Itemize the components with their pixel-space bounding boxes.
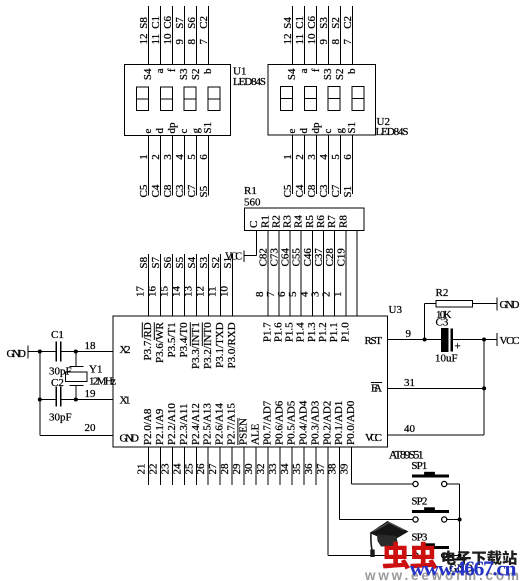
pin number 31 xyxy=(404,377,415,389)
wire net S6 to U3 xyxy=(172,254,174,316)
wire U1 top pin 7 xyxy=(208,6,210,65)
U3 pin number 24 xyxy=(171,463,183,475)
R1 pin name R5 xyxy=(304,215,316,228)
wire net S2 to U3 xyxy=(220,254,222,316)
U3 pin name P0.3/AD3 xyxy=(309,400,321,445)
U2 pin name f xyxy=(310,68,322,72)
net C1 above U1 xyxy=(150,16,162,29)
net C6 above U2 xyxy=(306,15,318,28)
wire VCC rail down xyxy=(483,340,485,435)
U2 pin number 2 xyxy=(294,154,306,160)
svg-text:d: d xyxy=(298,128,310,134)
svg-text:S6: S6 xyxy=(186,17,198,29)
svg-text:10uF: 10uF xyxy=(435,353,458,365)
svg-text:1: 1 xyxy=(332,292,344,298)
net S1 below U2 xyxy=(342,186,354,198)
U3 pin name P3.4/T0 xyxy=(178,322,190,358)
U3 pin name P1.7 xyxy=(261,322,273,342)
wire SP3 to GND rail xyxy=(447,555,459,557)
U3 pin number 30 xyxy=(243,463,255,475)
node VCC junction xyxy=(482,338,486,342)
U3 pin number 29 xyxy=(231,463,243,475)
svg-text:9: 9 xyxy=(318,39,330,45)
svg-text:P3.4/T0: P3.4/T0 xyxy=(178,322,190,358)
net S4 above U2 xyxy=(282,17,294,29)
U3 pin name X2 xyxy=(120,344,131,356)
svg-text:16: 16 xyxy=(147,286,159,298)
U3 pin name P1.6 xyxy=(272,322,284,342)
U3 pin number 17 xyxy=(135,286,147,298)
svg-text:e: e xyxy=(286,129,298,134)
U2 digit segment 3 xyxy=(328,87,340,111)
wire RST pin 9 xyxy=(388,339,442,341)
MCU U3 box AT89S51 xyxy=(113,316,388,447)
svg-text:f: f xyxy=(166,68,178,72)
svg-text:6: 6 xyxy=(198,154,210,160)
svg-text:P0.3/AD3: P0.3/AD3 xyxy=(309,400,321,445)
svg-text:P0.5/AD5: P0.5/AD5 xyxy=(285,400,297,445)
svg-text:P2.6/A14: P2.6/A14 xyxy=(214,403,226,445)
svg-text:g: g xyxy=(190,128,202,134)
svg-text:P3.6/WR: P3.6/WR xyxy=(154,322,166,363)
U3 pin name GND xyxy=(120,433,140,445)
U2 pin number 4 xyxy=(318,154,330,160)
svg-text:9: 9 xyxy=(406,328,412,340)
svg-text:C5: C5 xyxy=(138,184,150,197)
svg-text:P1.0: P1.0 xyxy=(339,322,351,342)
net S5 below U1 xyxy=(198,185,210,197)
U2 pin number 5 xyxy=(330,154,342,160)
svg-text:R2: R2 xyxy=(270,215,282,228)
svg-text:S3: S3 xyxy=(318,17,330,29)
U1 pin number 10 xyxy=(162,33,174,45)
U3 pin number 28 xyxy=(219,463,231,475)
node RST junction xyxy=(423,338,427,342)
svg-text:C73: C73 xyxy=(268,248,280,267)
wire U2 top pin 11 xyxy=(304,6,306,65)
svg-text:C7: C7 xyxy=(186,184,198,197)
pin number 20 xyxy=(85,422,97,434)
node SP3 junction xyxy=(458,554,462,558)
svg-text:21: 21 xyxy=(136,464,148,475)
node EA junction xyxy=(482,386,486,390)
wire U1 bottom pin 6 xyxy=(208,136,210,196)
svg-text:P0.6/AD6: P0.6/AD6 xyxy=(273,400,285,445)
svg-text:c: c xyxy=(178,129,190,134)
svg-text:P0.0/AD0: P0.0/AD0 xyxy=(345,400,357,445)
svg-text:7: 7 xyxy=(265,291,277,297)
svg-text:34: 34 xyxy=(279,463,291,475)
svg-text:C6: C6 xyxy=(306,15,318,28)
svg-text:11: 11 xyxy=(150,34,162,45)
svg-text:f: f xyxy=(310,68,322,72)
label R2 xyxy=(436,287,449,299)
svg-text:10: 10 xyxy=(162,33,174,45)
U3 pin number 21 xyxy=(136,464,148,475)
wire U2 bottom pin 4 xyxy=(328,135,330,194)
node Y1 top junction xyxy=(74,350,78,354)
U3 pin name P1.4 xyxy=(295,322,307,342)
svg-text:7: 7 xyxy=(198,39,210,45)
svg-text:P2.2/A10: P2.2/A10 xyxy=(166,403,178,445)
U2 digit segment 4 xyxy=(352,87,364,111)
U2 pin name e xyxy=(286,129,298,134)
wire U1 bottom pin 1 xyxy=(148,136,150,196)
svg-text:P0.1/AD1: P0.1/AD1 xyxy=(333,401,345,445)
svg-text:S4: S4 xyxy=(186,256,198,268)
U3 pin name X1 xyxy=(120,395,131,407)
U1 pin name S2 xyxy=(190,69,202,81)
svg-text:S7: S7 xyxy=(174,17,186,29)
wire U2 top pin 8 xyxy=(340,6,342,65)
U3 pin name P3.6/WR xyxy=(154,322,166,363)
svg-text:11: 11 xyxy=(207,286,219,297)
svg-text:29: 29 xyxy=(231,463,243,475)
U3 pin name P3.0/RXD xyxy=(226,322,238,368)
svg-text:C3: C3 xyxy=(436,317,449,329)
svg-text:RST: RST xyxy=(365,335,383,347)
U3 pin name P0.1/AD1 xyxy=(333,401,345,445)
U3 pin name P1.3 xyxy=(306,322,318,342)
U3 pin name P2.7/A15 xyxy=(226,403,238,445)
svg-text:10: 10 xyxy=(219,286,231,298)
U2 pin number 9 xyxy=(318,39,330,45)
svg-text:SP3: SP3 xyxy=(411,531,428,543)
svg-text:VCC: VCC xyxy=(365,432,382,444)
U1 pin number 3 xyxy=(162,154,174,160)
svg-text:P0.2/AD2: P0.2/AD2 xyxy=(321,401,333,445)
svg-text:35: 35 xyxy=(291,463,303,475)
wire R1 pin to U3 P1 xyxy=(345,231,347,317)
net S4 xyxy=(186,256,198,268)
wire U1 top pin 8 xyxy=(196,6,198,65)
node X1 junction xyxy=(38,398,42,402)
U2 pin name a xyxy=(298,68,310,73)
U2 digit segment 1 xyxy=(281,87,293,111)
svg-text:S2: S2 xyxy=(210,257,222,269)
svg-text:d: d xyxy=(154,128,166,134)
svg-text:PSEN: PSEN xyxy=(238,418,250,445)
net C55 xyxy=(291,248,303,267)
U1 pin number 12 xyxy=(138,34,150,45)
wire SP2 to GND rail xyxy=(447,519,459,521)
wire net S1 to U3 xyxy=(232,254,234,316)
wire GND rail to pin 20 xyxy=(40,435,113,437)
wire C1 to X2 xyxy=(61,351,113,353)
svg-text:C4: C4 xyxy=(294,184,306,197)
wire U1 top pin 11 xyxy=(160,6,162,65)
net C7 below U1 xyxy=(186,184,198,197)
svg-text:22: 22 xyxy=(147,464,159,475)
svg-text:g: g xyxy=(334,128,346,134)
svg-text:30pF: 30pF xyxy=(49,412,72,424)
svg-text:2: 2 xyxy=(150,154,162,160)
net C8 below U1 xyxy=(162,184,174,197)
svg-text:S1: S1 xyxy=(222,257,234,269)
svg-text:P3.2/INT0: P3.2/INT0 xyxy=(202,322,214,369)
U2 pin number 12 xyxy=(282,34,294,45)
net S7 above U1 xyxy=(174,17,186,29)
net C7 below U2 xyxy=(330,184,342,197)
wire U1 bottom pin 2 xyxy=(160,136,162,196)
svg-text:C1: C1 xyxy=(294,16,306,29)
wire net S3 to U3 xyxy=(208,254,210,316)
U3 pin number 5 xyxy=(287,291,299,297)
U3 pin name P0.6/AD6 xyxy=(273,400,285,445)
svg-text:S1: S1 xyxy=(346,122,358,134)
svg-text:C19: C19 xyxy=(335,248,347,267)
wire U2 top pin 10 xyxy=(316,6,318,65)
svg-text:S3: S3 xyxy=(322,68,334,80)
svg-text:C5: C5 xyxy=(282,184,294,197)
svg-text:10: 10 xyxy=(306,33,318,45)
U2 digit segment 2 xyxy=(304,87,316,111)
svg-text:R4: R4 xyxy=(293,215,305,228)
svg-text:www.4667.cn: www.4667.cn xyxy=(410,557,517,581)
wire R2 left lead xyxy=(425,304,436,340)
svg-text:25: 25 xyxy=(183,463,195,475)
value LED84S U2 xyxy=(376,126,409,138)
svg-text:32: 32 xyxy=(255,464,267,475)
node X2 net junction xyxy=(38,350,42,354)
capacitor C2 xyxy=(56,387,60,407)
U3 pin number 12 xyxy=(195,286,207,297)
U3 pin number 34 xyxy=(279,463,291,475)
svg-text:40: 40 xyxy=(404,423,416,435)
U1 pin name b xyxy=(202,68,214,74)
pin number 9 xyxy=(406,328,412,340)
U1 pin name f xyxy=(166,68,178,72)
svg-text:C55: C55 xyxy=(291,248,303,267)
U1 pin name S4 xyxy=(142,68,154,80)
net C6 above U1 xyxy=(162,15,174,28)
svg-text:5: 5 xyxy=(287,291,299,297)
ground GND right top xyxy=(497,298,520,312)
svg-text:2: 2 xyxy=(294,154,306,160)
svg-text:12MHz: 12MHz xyxy=(89,376,116,388)
svg-text:11: 11 xyxy=(294,34,306,45)
svg-text:C8: C8 xyxy=(306,184,318,197)
svg-text:P1.2: P1.2 xyxy=(317,322,329,342)
svg-text:P2.3/A11: P2.3/A11 xyxy=(178,404,190,445)
net S3 xyxy=(198,256,210,268)
wire net S4 to U3 xyxy=(196,254,198,316)
svg-text:P3.5/T1: P3.5/T1 xyxy=(166,322,178,357)
U3 pin number 6 xyxy=(276,291,288,297)
U3 pin number 25 xyxy=(183,463,195,475)
wire R1 pin to U3 P1 xyxy=(323,231,325,317)
net S8 xyxy=(138,256,150,268)
wire R1 pin to U3 P1 xyxy=(356,231,358,317)
U1 digit segment 4 xyxy=(208,87,220,111)
svg-text:6: 6 xyxy=(342,154,354,160)
wire U3 pin 26 xyxy=(207,447,209,485)
value AT89S51 xyxy=(389,447,424,461)
U1 pin number 6 xyxy=(198,154,210,160)
U1 pin number 5 xyxy=(186,154,198,160)
net S7 xyxy=(150,256,162,268)
net C2 above U2 xyxy=(342,16,354,29)
svg-text:b: b xyxy=(346,68,358,74)
svg-text:13: 13 xyxy=(183,286,195,298)
U3 pin number 32 xyxy=(255,464,267,475)
svg-text:27: 27 xyxy=(207,463,219,475)
wire R1 pin to U3 P1 xyxy=(311,231,313,317)
watermark text www.eeworm.com xyxy=(364,568,519,581)
U3 pin number 33 xyxy=(267,463,279,475)
wire R1 pin to U3 P1 xyxy=(267,231,269,317)
U1 pin name dp xyxy=(166,122,178,134)
wire U2 bottom pin 6 xyxy=(352,135,354,194)
net S6 xyxy=(162,256,174,268)
label Y1 xyxy=(89,364,102,376)
U3 pin number 10 xyxy=(219,286,231,298)
svg-text:C: C xyxy=(248,221,260,228)
U3 pin number 8 xyxy=(254,291,266,297)
node SP2 junction xyxy=(458,518,462,522)
wire U3 pin 38 to SP2 xyxy=(340,447,413,520)
svg-text:12: 12 xyxy=(282,34,294,45)
U2 pin number 1 xyxy=(282,154,294,160)
value 30pF C2 xyxy=(49,412,72,424)
svg-text:38: 38 xyxy=(327,463,339,475)
switch SP1 xyxy=(411,460,449,487)
U3 pin number 38 xyxy=(327,463,339,475)
power VCC right xyxy=(497,333,520,347)
svg-text:C1: C1 xyxy=(150,16,162,29)
svg-text:GND: GND xyxy=(120,433,140,445)
svg-text:S2: S2 xyxy=(334,69,346,81)
watermark text 虫虫 xyxy=(383,542,438,570)
wire U1 bottom pin 3 xyxy=(172,136,174,196)
net C1 above U2 xyxy=(294,16,306,29)
ground GND bottom xyxy=(449,560,473,575)
node Y1 bottom junction xyxy=(74,398,78,402)
U3 pin name P3.7/RD xyxy=(142,322,154,360)
R1 pin name R4 xyxy=(293,215,305,228)
U3 pin number 35 xyxy=(291,463,303,475)
U3 pin name P0.0/AD0 xyxy=(345,400,357,445)
wire U2 bottom pin 2 xyxy=(304,135,306,194)
value 560 xyxy=(244,197,261,209)
U3 pin name P3.5/T1 xyxy=(166,322,178,357)
U1 pin name g xyxy=(190,128,202,134)
U1 pin number 2 xyxy=(150,154,162,160)
svg-text:33: 33 xyxy=(267,463,279,475)
svg-text:b: b xyxy=(202,68,214,74)
U3 pin number 23 xyxy=(159,463,171,475)
svg-text:P3.0/RXD: P3.0/RXD xyxy=(226,322,238,368)
U3 pin number 1 xyxy=(332,292,344,298)
wire U3 pin 32 xyxy=(267,447,269,485)
U3 pin name P2.1/A9 xyxy=(154,408,166,445)
U2 pin name S4 xyxy=(286,68,298,80)
U1 pin number 11 xyxy=(150,34,162,45)
wire U3 pin 39 to SP1 xyxy=(352,447,413,484)
svg-text:7: 7 xyxy=(342,39,354,45)
U3 pin number 22 xyxy=(147,464,159,475)
display U1 box LED84S xyxy=(125,65,231,136)
U2 pin number 8 xyxy=(330,39,342,45)
R1 pin name R3 xyxy=(282,215,294,228)
svg-text:8: 8 xyxy=(186,39,198,45)
net C2 above U1 xyxy=(198,16,210,29)
svg-text:12: 12 xyxy=(138,34,150,45)
net C4 below U2 xyxy=(294,184,306,197)
svg-text:19: 19 xyxy=(85,388,97,400)
wire U3 pin 37 to SP3 xyxy=(328,447,413,556)
R1 pin name R7 xyxy=(326,215,338,228)
U3 pin number 39 xyxy=(339,463,351,475)
svg-text:P1.6: P1.6 xyxy=(272,322,284,342)
label U3 xyxy=(389,304,403,316)
value 10uF xyxy=(435,353,458,365)
svg-text:20: 20 xyxy=(85,422,97,434)
U1 pin name a xyxy=(154,68,166,73)
U3 pin name P1.1 xyxy=(328,322,340,342)
U3 pin number 3 xyxy=(310,291,322,297)
svg-text:S2: S2 xyxy=(330,17,342,29)
label U1 xyxy=(233,66,246,78)
svg-text:P0.7/AD7: P0.7/AD7 xyxy=(262,400,274,445)
svg-text:24: 24 xyxy=(171,463,183,475)
capacitor C3 polarized xyxy=(441,328,452,351)
svg-text:a: a xyxy=(298,68,310,73)
svg-text:GND: GND xyxy=(500,299,520,311)
pin number 40 xyxy=(404,423,416,435)
wire C3 to VCC xyxy=(453,339,497,341)
R1 pin name R8 xyxy=(337,215,349,228)
svg-text:c: c xyxy=(322,129,334,134)
svg-text:23: 23 xyxy=(159,463,171,475)
svg-text:C3: C3 xyxy=(318,184,330,197)
svg-text:X1: X1 xyxy=(120,395,131,407)
U3 pin number 26 xyxy=(195,463,207,475)
svg-text:dp: dp xyxy=(166,122,178,134)
wire net S5 to U3 xyxy=(184,254,186,316)
U1 digit segment 1 xyxy=(137,87,149,111)
net C73 xyxy=(268,248,280,267)
svg-text:Y1: Y1 xyxy=(89,364,102,376)
svg-text:36: 36 xyxy=(303,463,315,475)
U2 pin name c xyxy=(322,129,334,134)
wire U1 bottom pin 4 xyxy=(184,136,186,196)
U3 pin name P2.5/A13 xyxy=(202,403,214,445)
net S2 above U2 xyxy=(330,17,342,29)
wire SP1 to GND rail xyxy=(447,484,459,560)
label C1 xyxy=(51,329,64,341)
wire C2 to X1 xyxy=(61,399,113,401)
wire GND to C1 xyxy=(28,351,56,353)
svg-text:S8: S8 xyxy=(138,256,150,268)
svg-text:S4: S4 xyxy=(286,68,298,80)
svg-text:4: 4 xyxy=(318,154,330,160)
U3 pin name P2.3/A11 xyxy=(178,404,190,445)
svg-text:S2: S2 xyxy=(190,69,202,81)
U2 pin number 3 xyxy=(306,154,318,160)
svg-text:U3: U3 xyxy=(389,304,403,316)
svg-text:SP2: SP2 xyxy=(411,495,427,507)
U2 pin name g xyxy=(334,128,346,134)
U1 pin name S3 xyxy=(178,68,190,80)
net C46 xyxy=(302,248,314,267)
svg-text:e: e xyxy=(142,129,154,134)
wire U1 top pin 9 xyxy=(184,6,186,65)
svg-text:LED84S: LED84S xyxy=(233,76,266,88)
svg-text:S6: S6 xyxy=(162,256,174,268)
R1 pin name R6 xyxy=(315,215,327,228)
svg-text:P3.7/RD: P3.7/RD xyxy=(142,322,154,360)
